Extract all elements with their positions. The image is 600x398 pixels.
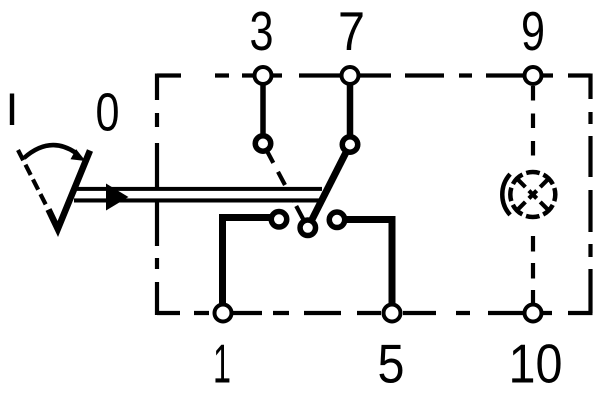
actuator dashed arm (position I)	[18, 150, 48, 208]
svg-text:3: 3	[250, 0, 274, 62]
wire bracket right: contact to terminal 5	[337, 220, 392, 314]
svg-text:9: 9	[521, 0, 545, 62]
terminal 1 circle	[215, 305, 232, 322]
bracket right contact circle	[329, 212, 345, 228]
wire bracket left: contact to terminal 1	[223, 218, 280, 314]
svg-text:1: 1	[213, 333, 231, 395]
switch lever (contact 7 to pivot)	[308, 145, 350, 228]
switch housing dash-dot border: top edge	[157, 73, 591, 77]
dashed wire terminal 9 to lamp	[531, 86, 535, 159]
actuator rod (double line)	[74, 187, 322, 203]
terminal 3 circle	[255, 67, 272, 84]
dashed wire lamp to terminal 10	[531, 236, 535, 305]
wire terminal 7 to contact	[347, 76, 354, 145]
switch housing dash-dot border: bottom edge	[157, 311, 593, 315]
label I (actuator position)	[10, 94, 14, 126]
svg-text:0: 0	[96, 83, 120, 143]
lamp left arc	[502, 174, 510, 215]
lamp X stroke NE-SW	[518, 180, 548, 210]
actuator arc arrowhead	[71, 149, 86, 161]
actuator rod arrowhead	[106, 184, 129, 211]
terminal 7 circle	[342, 67, 359, 84]
terminal 9 circle	[525, 67, 542, 84]
terminal 10 circle	[525, 305, 542, 322]
pivot circle	[300, 220, 316, 236]
switch housing dash-dot border: right edge	[588, 74, 592, 314]
svg-text:7: 7	[338, 0, 365, 62]
contact circle of terminal 3	[255, 136, 271, 152]
wire terminal 3 to contact	[260, 76, 266, 144]
svg-text:5: 5	[378, 333, 405, 395]
svg-text:10: 10	[509, 333, 563, 395]
terminal 5 circle	[384, 305, 401, 322]
dashed alternate throw: contact 3 to pivot	[267, 151, 303, 219]
actuator arc arrow	[24, 145, 76, 158]
lamp X stroke NW-SE	[518, 180, 548, 210]
lamp L1: dashed circle	[510, 172, 555, 217]
switch housing dash-dot border: left edge	[155, 74, 159, 316]
actuator lever V (position 0)	[49, 151, 91, 230]
contact circle of terminal 7	[342, 137, 358, 153]
bracket left contact circle	[271, 212, 287, 228]
